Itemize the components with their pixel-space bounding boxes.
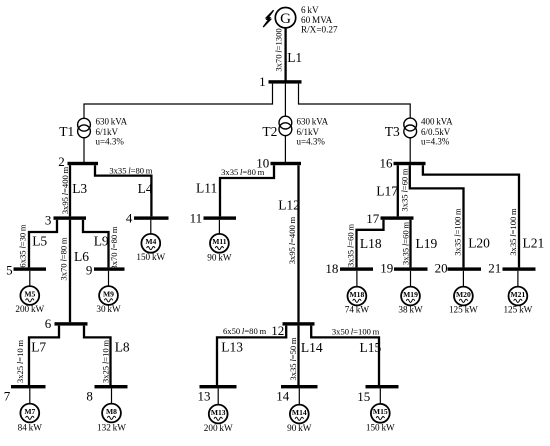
- svg-text:M9: M9: [103, 289, 114, 298]
- wire M11 stub: [218, 220, 220, 234]
- svg-text:8: 8: [86, 388, 93, 403]
- wire M8 stub: [111, 388, 113, 403]
- svg-text:3x50 l=100 m: 3x50 l=100 m: [332, 327, 380, 337]
- line L20: [410, 165, 464, 267]
- transformer T2: [262, 116, 291, 139]
- motor M19: [401, 287, 420, 306]
- wire M19 stub: [410, 271, 412, 287]
- bus 21: [488, 260, 535, 275]
- svg-text:u=4.3%: u=4.3%: [96, 137, 125, 147]
- svg-text:132 kW: 132 kW: [97, 422, 126, 432]
- svg-text:14: 14: [276, 389, 290, 404]
- wire M15 stub: [379, 388, 381, 404]
- svg-text:6x50 l=80 m: 6x50 l=80 m: [223, 326, 266, 336]
- svg-text:R/X=0.27: R/X=0.27: [301, 25, 338, 35]
- line L5: [29, 220, 57, 268]
- svg-text:L14: L14: [301, 340, 323, 355]
- svg-text:M18: M18: [350, 290, 365, 299]
- wire M18 stub: [356, 271, 358, 287]
- svg-text:630 kVA: 630 kVA: [297, 117, 329, 127]
- svg-text:84 kW: 84 kW: [18, 422, 43, 432]
- line L14: [297, 326, 299, 385]
- svg-text:M13: M13: [211, 408, 226, 417]
- wire M14 stub: [298, 388, 300, 404]
- svg-text:T1: T1: [59, 124, 74, 139]
- svg-text:18: 18: [325, 261, 338, 276]
- motor M9: [99, 286, 118, 305]
- svg-text:38 kW: 38 kW: [398, 304, 423, 314]
- svg-text:M14: M14: [292, 408, 307, 417]
- short-circuit lightning bolt: [263, 10, 273, 27]
- svg-text:150 kW: 150 kW: [366, 422, 395, 432]
- bus 20: [435, 260, 481, 275]
- svg-text:6: 6: [45, 316, 52, 331]
- svg-text:M19: M19: [403, 290, 418, 299]
- svg-text:3x35 l=50 m: 3x35 l=50 m: [288, 337, 298, 380]
- svg-text:L4: L4: [138, 181, 153, 196]
- svg-text:125 kW: 125 kW: [503, 304, 532, 314]
- bus 2: [58, 154, 98, 169]
- svg-text:6/1kV: 6/1kV: [96, 127, 119, 137]
- svg-text:20: 20: [435, 260, 448, 275]
- line L18: [357, 220, 384, 268]
- bus 3: [45, 213, 86, 228]
- svg-text:6 kV: 6 kV: [301, 5, 319, 15]
- bus 8: [86, 385, 127, 403]
- svg-text:90 kW: 90 kW: [287, 423, 312, 433]
- svg-text:74 kW: 74 kW: [345, 304, 370, 314]
- bus 10: [256, 155, 301, 170]
- svg-text:L13: L13: [221, 340, 243, 355]
- motor M18: [348, 287, 367, 306]
- svg-text:150 kW: 150 kW: [136, 252, 165, 262]
- motor M4: [141, 234, 160, 253]
- wire bus1 to T3: [299, 84, 411, 118]
- bus 4: [126, 211, 169, 226]
- line L17: [397, 165, 399, 216]
- svg-text:15: 15: [357, 389, 370, 404]
- svg-text:L11: L11: [196, 181, 217, 196]
- bus 15: [357, 385, 398, 404]
- svg-text:M21: M21: [511, 290, 526, 299]
- svg-text:200 kW: 200 kW: [15, 304, 44, 314]
- svg-text:M20: M20: [456, 290, 471, 299]
- motor M20: [454, 287, 473, 306]
- bus 14: [276, 385, 317, 404]
- bus 5: [6, 262, 46, 277]
- bus 9: [86, 262, 125, 277]
- line L19: [409, 220, 411, 268]
- svg-text:3: 3: [45, 213, 52, 228]
- svg-text:M7: M7: [24, 407, 35, 416]
- svg-text:400 kVA: 400 kVA: [421, 117, 453, 127]
- svg-text:3x35 l=60 m: 3x35 l=60 m: [400, 222, 410, 265]
- svg-text:6x35 l=30 m: 6x35 l=30 m: [17, 224, 27, 267]
- line L13: [217, 326, 286, 385]
- wire T2 to bus10: [284, 135, 286, 162]
- bus 11: [190, 211, 236, 226]
- svg-text:M4: M4: [145, 237, 156, 246]
- motor M13: [209, 405, 228, 424]
- svg-text:1: 1: [259, 74, 266, 89]
- svg-text:3x95 l=400 m: 3x95 l=400 m: [60, 166, 70, 214]
- svg-text:17: 17: [366, 211, 380, 226]
- svg-text:200 kW: 200 kW: [204, 423, 233, 433]
- svg-text:19: 19: [380, 261, 393, 276]
- svg-text:3x35 l=80 m: 3x35 l=80 m: [221, 167, 264, 177]
- wire M5 stub: [29, 271, 31, 286]
- motor M8: [102, 404, 121, 423]
- svg-text:7: 7: [4, 388, 11, 403]
- svg-text:4: 4: [126, 211, 133, 226]
- svg-text:u=4.3%: u=4.3%: [421, 137, 450, 147]
- svg-text:L18: L18: [360, 236, 382, 251]
- svg-text:9: 9: [86, 262, 93, 277]
- line L1: [284, 29, 286, 82]
- svg-text:L1: L1: [287, 50, 302, 65]
- svg-text:11: 11: [190, 211, 203, 226]
- line L21: [423, 165, 519, 267]
- generator G: [275, 8, 295, 28]
- svg-text:M5: M5: [24, 289, 35, 298]
- bus 12: [271, 322, 314, 338]
- svg-text:u=4.3%: u=4.3%: [297, 137, 326, 147]
- transformer T1: [59, 118, 90, 139]
- svg-text:3x70 l=80 m: 3x70 l=80 m: [109, 226, 119, 269]
- svg-text:L3: L3: [72, 181, 87, 196]
- wire M9 stub: [108, 271, 110, 286]
- svg-text:T2: T2: [262, 124, 277, 139]
- svg-text:630 kVA: 630 kVA: [96, 117, 128, 127]
- svg-text:3x35 l=80 m: 3x35 l=80 m: [109, 165, 152, 175]
- svg-text:3x25 l=10 m: 3x25 l=10 m: [101, 340, 111, 383]
- svg-text:60 MVA: 60 MVA: [301, 15, 333, 25]
- svg-text:3x95 l=400 m: 3x95 l=400 m: [287, 216, 297, 264]
- bus 13: [198, 385, 237, 404]
- svg-text:L19: L19: [416, 236, 438, 251]
- bus 17: [366, 211, 413, 226]
- svg-text:L17: L17: [376, 184, 398, 199]
- line L4: [95, 165, 151, 216]
- bus 18: [325, 261, 373, 276]
- motor M11: [210, 234, 229, 253]
- line L6: [69, 220, 71, 322]
- svg-text:M8: M8: [106, 407, 117, 416]
- motor M21: [509, 287, 528, 306]
- motor M14: [290, 405, 309, 424]
- wire M21 stub: [517, 271, 519, 287]
- svg-text:21: 21: [488, 260, 501, 275]
- bus 6: [45, 316, 88, 331]
- wire T3 to bus16: [409, 137, 411, 162]
- wire T1 to bus2: [83, 137, 85, 162]
- T1 ratings label: [96, 117, 128, 147]
- line L9: [83, 220, 109, 268]
- line L7: [29, 326, 59, 385]
- svg-text:L9: L9: [94, 233, 109, 248]
- svg-text:5: 5: [6, 262, 13, 277]
- svg-text:T3: T3: [385, 124, 400, 139]
- line L8: [84, 326, 111, 385]
- svg-text:M15: M15: [373, 407, 388, 416]
- svg-text:L7: L7: [31, 340, 46, 355]
- motor M7: [20, 404, 39, 423]
- svg-text:3x70 l=80 m: 3x70 l=80 m: [58, 237, 68, 280]
- bus 19: [380, 261, 427, 276]
- motor M15: [371, 404, 390, 423]
- svg-text:M11: M11: [212, 237, 227, 246]
- bus 7: [4, 385, 46, 403]
- generator ratings label: [301, 5, 338, 34]
- line L11: [220, 165, 274, 216]
- wire M13 stub: [217, 388, 219, 404]
- svg-text:L15: L15: [360, 340, 382, 355]
- wire M20 stub: [462, 271, 464, 287]
- wire bus1 to T1: [84, 84, 273, 119]
- svg-text:30 kW: 30 kW: [96, 304, 121, 314]
- T2 ratings label: [297, 117, 329, 147]
- svg-text:12: 12: [271, 323, 284, 338]
- wire bus1 to T2: [284, 84, 286, 117]
- svg-text:3x25 l=10 m: 3x25 l=10 m: [15, 340, 25, 383]
- svg-text:L8: L8: [115, 340, 130, 355]
- svg-text:6/1kV: 6/1kV: [297, 127, 320, 137]
- svg-text:3x35 l=100 m: 3x35 l=100 m: [508, 208, 518, 256]
- svg-text:L12: L12: [278, 198, 300, 213]
- svg-text:125 kW: 125 kW: [449, 304, 478, 314]
- wire M7 stub: [29, 388, 31, 403]
- bus 16: [380, 156, 426, 171]
- wire M4 stub: [150, 220, 152, 234]
- svg-text:13: 13: [198, 389, 211, 404]
- svg-text:3x70 l=1300: 3x70 l=1300: [273, 28, 283, 71]
- svg-text:3x35 l=60 m: 3x35 l=60 m: [399, 168, 409, 211]
- svg-text:6/0.5kV: 6/0.5kV: [421, 127, 451, 137]
- svg-text:16: 16: [380, 156, 394, 171]
- svg-text:L5: L5: [32, 233, 47, 248]
- line L15: [311, 326, 379, 385]
- svg-text:G: G: [280, 11, 291, 27]
- svg-text:3x35 l=60 m: 3x35 l=60 m: [346, 224, 356, 267]
- svg-text:90 kW: 90 kW: [207, 253, 232, 263]
- svg-text:3x35 l=100 m: 3x35 l=100 m: [453, 208, 463, 256]
- T3 ratings label: [421, 117, 453, 147]
- line L3: [69, 165, 71, 216]
- bus 1: [259, 74, 301, 89]
- svg-text:L20: L20: [468, 236, 490, 251]
- transformer T3: [385, 118, 417, 139]
- line L12: [297, 165, 299, 322]
- svg-text:L21: L21: [523, 236, 545, 251]
- motor M5: [20, 286, 39, 305]
